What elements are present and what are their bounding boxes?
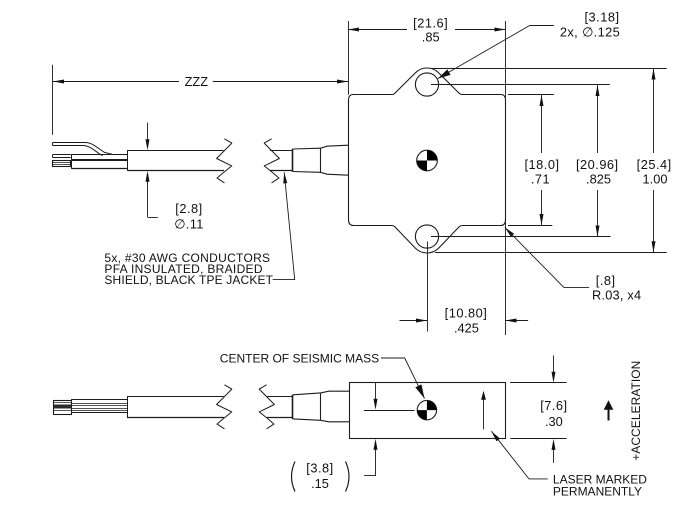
extension line body top (side view) <box>510 382 566 384</box>
dimension arrow to bottom face with leg <box>375 448 377 476</box>
cable boot (side view) <box>293 393 321 395</box>
center of seismic mass symbol (top view) <box>417 150 438 171</box>
extension line tab bottom tangent <box>435 252 667 254</box>
extension line body bottom (side view) <box>510 438 566 440</box>
reference parenthesis right <box>346 462 350 492</box>
braided shield stub (top view) <box>53 161 71 167</box>
dimension arrow to centerline <box>375 383 377 401</box>
svg-text:.30: .30 <box>545 414 563 429</box>
extension line tab top tangent <box>431 68 667 70</box>
svg-text:R.03, x4: R.03, x4 <box>592 288 641 303</box>
dimension line [21.6] <box>348 29 407 31</box>
wire lead middle (top view) <box>53 154 71 156</box>
dimension line ZZZ <box>53 81 179 83</box>
svg-text:ZZZ: ZZZ <box>185 74 209 89</box>
cable stub at boot (top view) <box>270 150 293 152</box>
extension line body top edge <box>508 94 554 96</box>
svg-text:[21.6]: [21.6] <box>413 15 448 30</box>
conductor bundle (side view) <box>71 399 127 401</box>
dimension ZZZ extension line left <box>52 65 54 135</box>
cable boot (top view) <box>293 147 321 150</box>
inner conductor lower (top view) <box>71 160 127 162</box>
svg-text:[3.18]: [3.18] <box>584 9 619 24</box>
dimension [21.6] extension line right <box>505 21 507 335</box>
extension line hole center vertical <box>427 242 429 332</box>
svg-text:.85: .85 <box>422 30 440 45</box>
svg-text:[2.8]: [2.8] <box>175 201 202 216</box>
dimension ZZZ extension line right / body edge extension <box>348 21 350 95</box>
center of seismic mass symbol (side view) <box>417 400 436 419</box>
svg-text:[25.4]: [25.4] <box>637 157 672 172</box>
extension line body bottom edge <box>508 225 552 227</box>
leader for radius note <box>505 227 589 287</box>
acceleration reference arrow <box>608 408 610 421</box>
extension line top hole center <box>431 84 610 86</box>
svg-text:[18.0]: [18.0] <box>524 157 559 172</box>
dimension arrow cable top <box>147 123 149 141</box>
bent wire lead (top view) <box>53 143 113 156</box>
leader for conductor note <box>273 172 295 279</box>
svg-text:[7.6]: [7.6] <box>540 398 567 413</box>
svg-text:+ACCELERATION: +ACCELERATION <box>629 361 643 461</box>
leader for center of seismic mass <box>381 358 425 399</box>
dimension line [25.4] <box>653 68 655 153</box>
accelerometer body outline (side view) <box>350 383 506 439</box>
cable stub at boot (side view) <box>267 396 293 398</box>
svg-text:CENTER OF SEISMIC MASS: CENTER OF SEISMIC MASS <box>220 351 379 365</box>
svg-text:2x, ∅.125: 2x, ∅.125 <box>560 25 620 40</box>
cable jacket (top view) <box>127 150 223 152</box>
leader for hole note <box>438 26 554 79</box>
cable break zigzag at jacket end (side view) <box>217 385 232 429</box>
cable break zigzag near boot (top view) <box>264 139 279 183</box>
centerline through mass (side view) <box>364 410 415 412</box>
svg-text:SHIELD, BLACK TPE JACKET: SHIELD, BLACK TPE JACKET <box>104 273 273 287</box>
leader for laser marked note <box>491 431 547 479</box>
cable jacket (side view) <box>127 396 224 398</box>
svg-text:.425: .425 <box>454 321 479 336</box>
cable break zigzag near boot (side view) <box>259 385 274 429</box>
extension line bottom hole center <box>431 236 611 238</box>
dimension line [10.80] <box>400 320 428 322</box>
svg-text:[.8]: [.8] <box>596 273 616 288</box>
dimension arrow cable bottom with leg <box>147 180 149 217</box>
svg-text:[10.80]: [10.80] <box>445 306 488 321</box>
exposed shield braid (side view) <box>54 401 72 415</box>
dimension line [18.0] <box>541 95 543 153</box>
dimension line [20.96] <box>597 85 599 154</box>
cable boot taper (side view) <box>321 391 350 422</box>
svg-text:1.00: 1.00 <box>643 172 668 187</box>
svg-text:.825: .825 <box>586 172 611 187</box>
mounting hole top <box>415 73 438 96</box>
accelerometer body outline (top view) <box>349 68 506 253</box>
svg-text:.15: .15 <box>311 476 329 491</box>
reference parenthesis left <box>292 462 296 492</box>
svg-text:.71: .71 <box>531 172 550 187</box>
cable break zigzag at jacket end (top view) <box>217 139 232 183</box>
svg-text:[3.8]: [3.8] <box>306 460 333 475</box>
svg-text:∅.11: ∅.11 <box>174 217 204 232</box>
mounting hole bottom <box>415 225 438 248</box>
dimension arrows [7.6] <box>553 355 555 374</box>
svg-text:[20.96]: [20.96] <box>576 157 619 172</box>
acceleration direction arrow marked on device <box>483 399 485 429</box>
cable boot taper (top view) <box>321 145 349 175</box>
svg-text:PERMANENTLY: PERMANENTLY <box>553 484 642 498</box>
inner conductor upper (top view) <box>71 154 127 156</box>
